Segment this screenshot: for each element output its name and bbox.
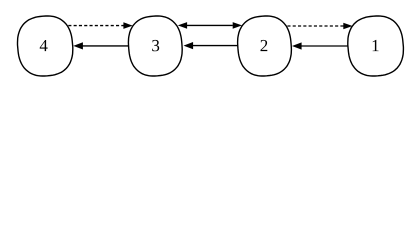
solid arrow 1 to 2 xyxy=(292,42,348,49)
solid arrow 3 to 4 xyxy=(73,42,129,49)
double-headed arrow 3 and 2 xyxy=(178,22,242,29)
svg-text:4: 4 xyxy=(39,36,48,55)
node 2 circle xyxy=(238,16,292,76)
dashed arrow 2 to 1 xyxy=(287,23,352,30)
solid arrow 2 to 3 xyxy=(184,42,238,49)
svg-text:1: 1 xyxy=(371,36,380,55)
svg-text:2: 2 xyxy=(260,36,269,55)
node 1 circle xyxy=(348,16,404,76)
svg-text:3: 3 xyxy=(151,36,160,55)
dashed arrow 4 to 3 xyxy=(68,22,132,29)
node 3 circle xyxy=(128,16,182,76)
node 4 circle xyxy=(18,16,73,76)
